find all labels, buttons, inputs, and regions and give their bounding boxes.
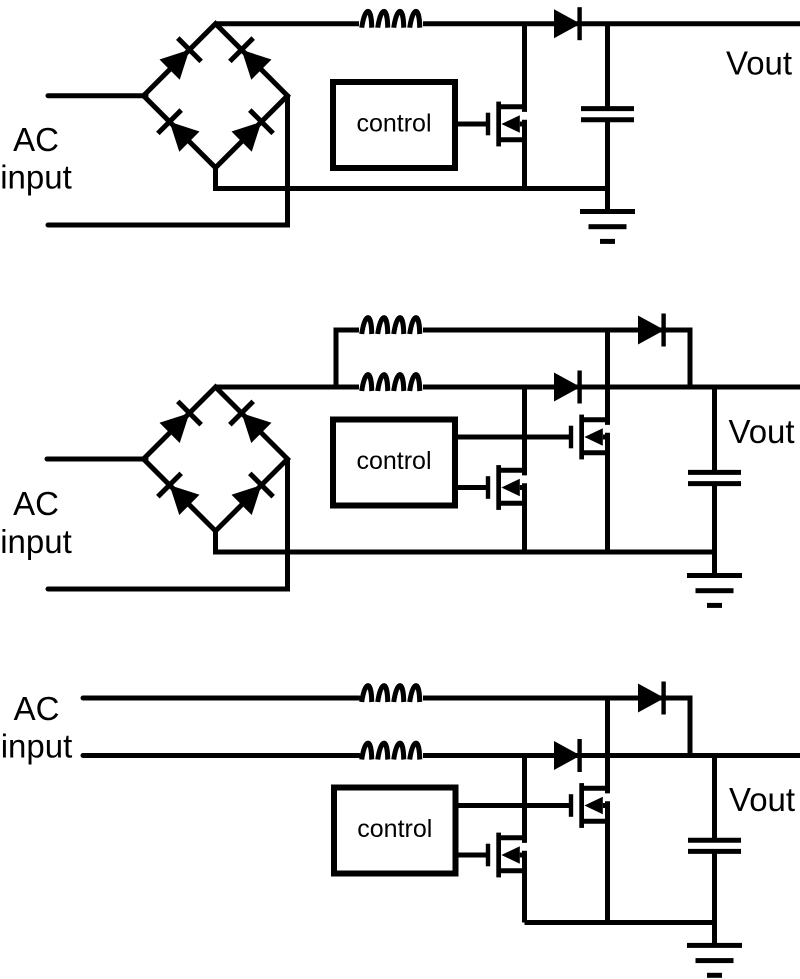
svg-text:Vout: Vout [729,413,795,450]
svg-text:input: input [0,158,72,195]
svg-text:AC: AC [14,690,60,727]
svg-text:control: control [356,447,431,475]
svg-text:AC: AC [13,121,59,158]
svg-text:control: control [356,110,431,138]
svg-text:AC: AC [13,485,59,522]
svg-text:control: control [357,815,432,843]
svg-text:Vout: Vout [726,45,792,82]
svg-text:input: input [0,523,72,560]
svg-text:Vout: Vout [729,781,795,818]
svg-text:input: input [1,728,73,765]
